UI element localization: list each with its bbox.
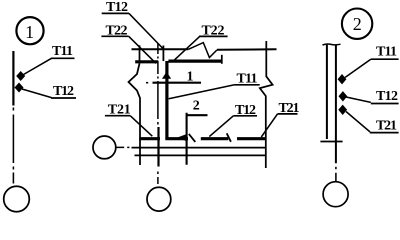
svg-text:1: 1 [25, 22, 34, 42]
grid dash-dot from circle [116, 146, 130, 148]
section 1 cut line [153, 82, 202, 84]
svg-text:2: 2 [353, 14, 362, 34]
grid circle middle left [93, 136, 116, 159]
weld segment S3 [201, 137, 229, 140]
centerline dash-dot (detail 2) [335, 167, 337, 182]
beam top flange line right segment [217, 48, 277, 51]
column flange edge V1 [139, 45, 141, 63]
section 1 cut line stub [146, 82, 148, 84]
weld line A [135, 60, 158, 63]
detail bubble 1 [16, 17, 43, 44]
svg-text:T11: T11 [52, 44, 73, 59]
grid circle bottom middle [147, 187, 171, 211]
leader T22 top-left [129, 36, 156, 63]
section 2 line [187, 113, 208, 165]
leader T12 bottom middle [209, 116, 233, 137]
weld segment S1 [139, 137, 160, 140]
svg-text:1: 1 [187, 70, 194, 85]
beam bottom flange line 1 [132, 147, 266, 149]
leader T12 top-left [129, 13, 163, 49]
svg-text:2: 2 [193, 99, 200, 114]
weld arrow diamond T11 right [338, 74, 347, 84]
leader T21 right [261, 114, 277, 137]
column bottom break tick [320, 141, 342, 143]
weld line B [168, 59, 221, 62]
column flange left edge (detail 2) [326, 45, 328, 139]
svg-text:T21: T21 [376, 119, 397, 134]
column cap line (detail 2) [323, 43, 341, 46]
weld arrow diamond T11 left [16, 71, 25, 81]
beam top flange line left segment [132, 48, 189, 50]
top flange break zigzag [188, 43, 217, 58]
weld arrow diamond T12 right [339, 91, 348, 101]
leader T12 left [22, 89, 52, 98]
weld end tick T [162, 46, 164, 62]
section 1 arrow [162, 72, 171, 79]
leader T21 left [130, 116, 152, 137]
svg-text:T11: T11 [376, 45, 397, 60]
grid circle bottom left [4, 186, 30, 212]
grid circle bottom right [323, 182, 348, 207]
weld tick after S3 [227, 133, 231, 142]
column centerline dash-dot (detail 1) [12, 108, 14, 184]
section 2 arrow [177, 134, 188, 142]
weld arrow diamond T12 left [15, 83, 24, 93]
weld B end tick [221, 55, 223, 64]
column centerline dash-dot (plan) [157, 44, 159, 185]
leader T11 middle [169, 85, 235, 99]
leader T11 right [345, 59, 371, 77]
column centerline solid lower part [157, 127, 159, 167]
svg-text:T12: T12 [376, 89, 398, 104]
weld arrow diamond T21 right [338, 105, 347, 115]
column flange right edge (detail 2) [335, 45, 337, 164]
weld segment S4 [237, 137, 266, 140]
weld segment S2 [165, 137, 188, 140]
detail bubble 2 [342, 9, 372, 39]
leader T12 right [346, 97, 371, 102]
beam bottom flange line 2 [135, 154, 266, 156]
leader T21 right detail2 [346, 112, 370, 132]
right break line zigzag [260, 41, 273, 168]
column edge line (detail 1) [12, 51, 14, 106]
column flange edge V2 (thick) [165, 61, 168, 139]
left break line zigzag [129, 64, 141, 166]
weld tick after S2 [189, 134, 196, 142]
leader T22 middle [174, 36, 200, 60]
leader T11 left [24, 58, 52, 74]
svg-text:T12: T12 [53, 84, 74, 99]
